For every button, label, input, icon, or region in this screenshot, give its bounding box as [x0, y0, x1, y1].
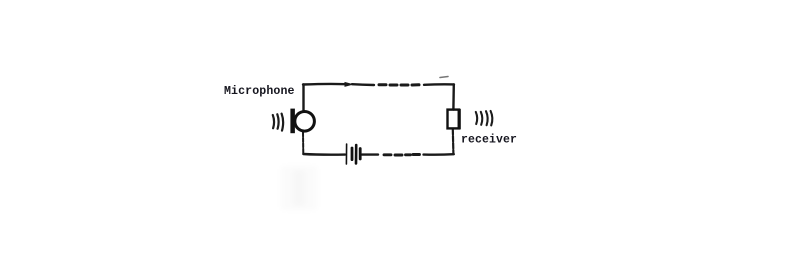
sound waves at microphone: [273, 114, 283, 131]
wire bottom solid-right segment: [424, 153, 454, 156]
wire top segment after arrow: [352, 83, 374, 86]
wire top solid-left segment with slight waviness: [303, 83, 346, 86]
receiver LS1: thick right edge: [458, 109, 461, 130]
wire right vertical below receiver: [452, 129, 455, 154]
wire bottom dashed segment: [384, 153, 420, 156]
stray dash above top-right: [440, 77, 448, 78]
svg-text:Microphone: Microphone: [224, 85, 295, 98]
wire left vertical below mic: [302, 133, 304, 155]
receiver LS1: box: [448, 110, 459, 129]
microphone M1: body circle: [295, 112, 315, 132]
microphone M1: diaphragm bar: [290, 109, 295, 134]
wire left vertical (top-left corner down to mic): [302, 85, 304, 111]
wire right vertical above receiver: [452, 84, 455, 109]
wire top dashed segment: [379, 83, 419, 86]
battery B1: plate 3 (tall): [355, 145, 358, 163]
battery B1: plate 4 (short thick): [359, 149, 362, 160]
wire top solid-right segment: [424, 83, 454, 86]
battery B1: plate 1 (tall thin): [345, 144, 347, 164]
wire bottom solid-left segment: [303, 153, 345, 156]
smudge left-bottom: [281, 166, 317, 210]
sound waves at receiver: [476, 111, 493, 125]
wire bottom after battery: [362, 153, 378, 155]
arrow on top wire: [345, 82, 355, 87]
svg-text:receiver: receiver: [461, 134, 517, 147]
battery B1: plate 2 (short thick): [351, 148, 354, 160]
